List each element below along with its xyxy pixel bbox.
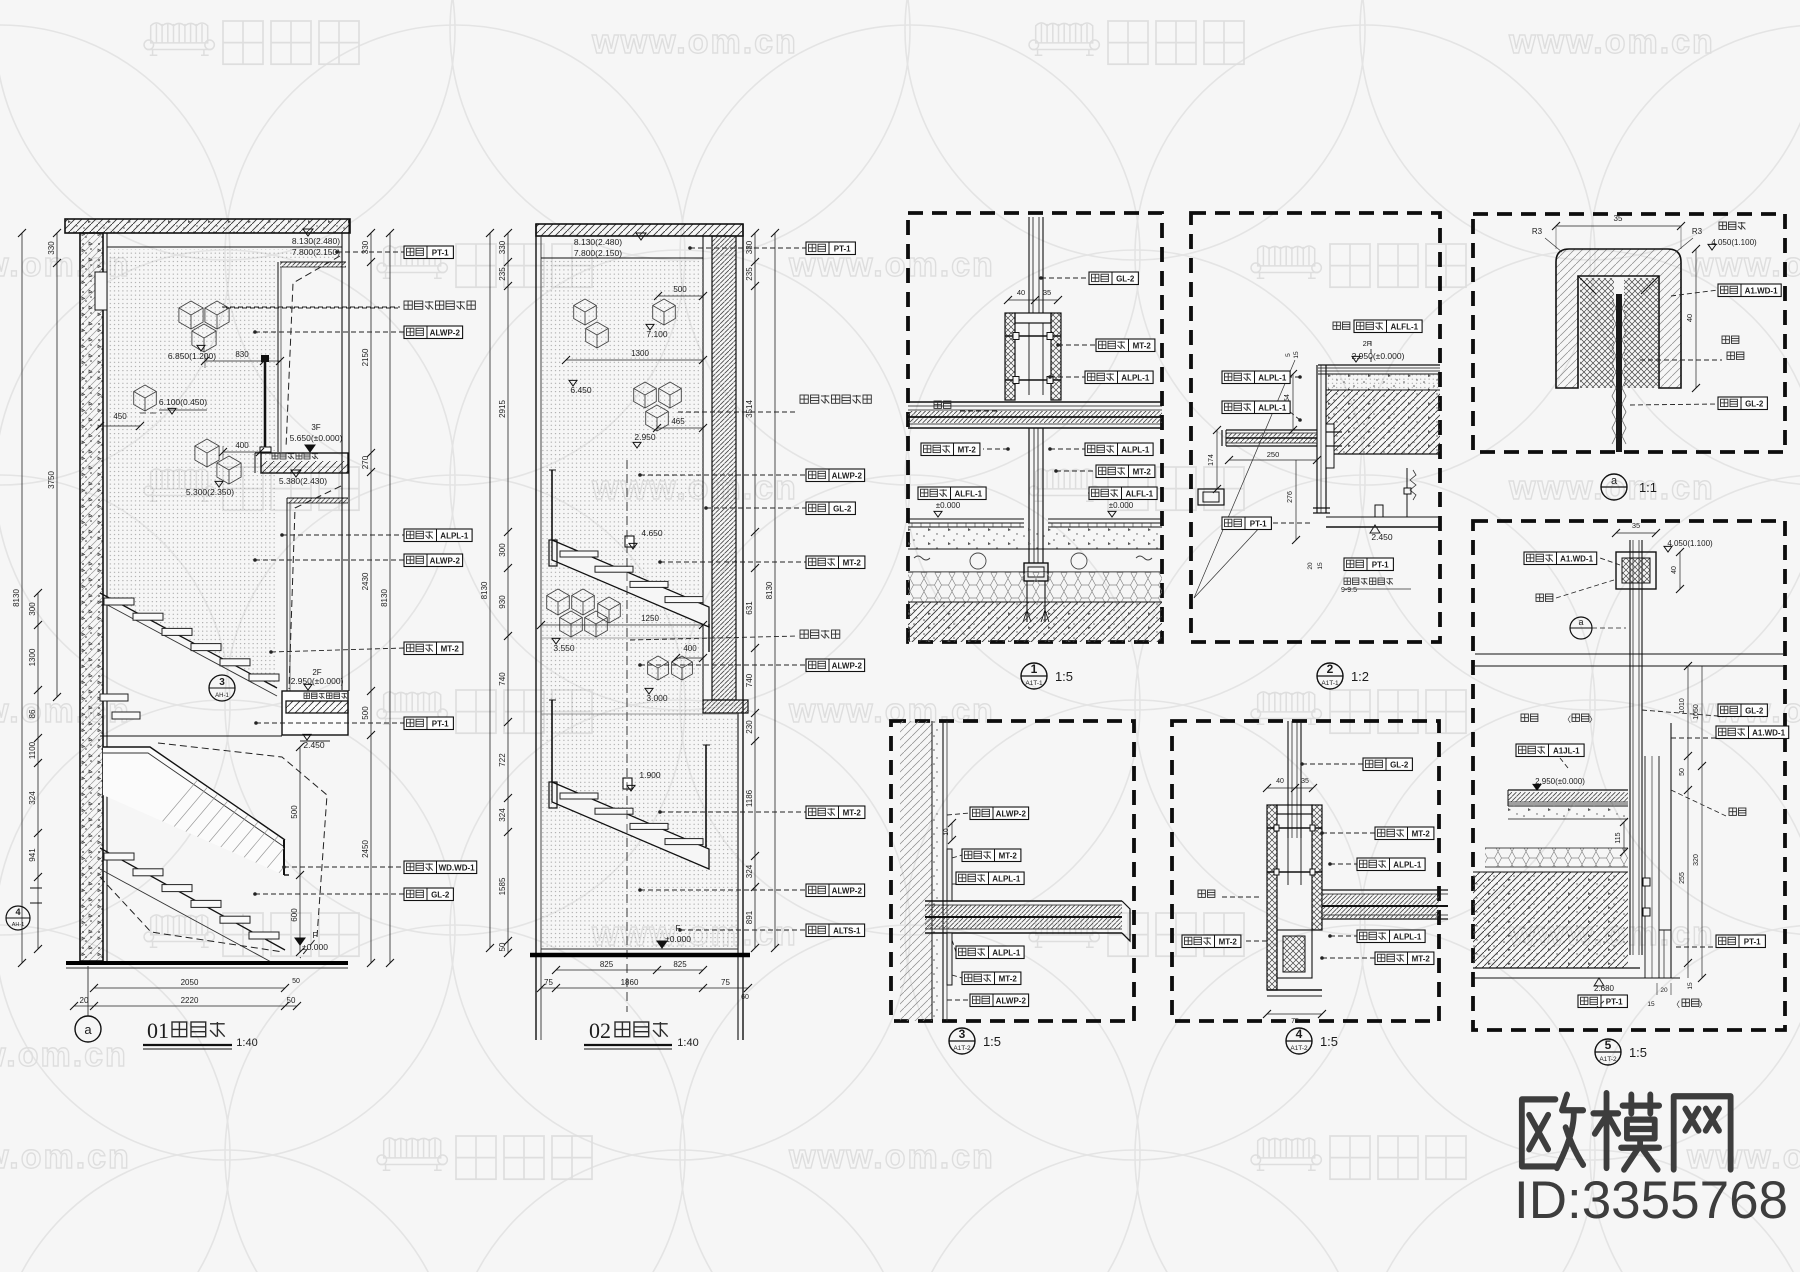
detail 5 border	[1473, 214, 1785, 452]
svg-text:A1JL-1: A1JL-1	[1553, 746, 1580, 755]
detail 6 datum circle a	[1570, 617, 1592, 639]
svg-text:1: 1	[1031, 662, 1038, 676]
svg-text:1250: 1250	[641, 614, 659, 623]
detail 1 labels	[1041, 277, 1089, 279]
svg-text:230: 230	[745, 720, 754, 734]
detail 2 post	[1316, 365, 1318, 513]
svg-text:330: 330	[745, 240, 754, 254]
svg-text:1050: 1050	[1693, 704, 1700, 720]
elevation 02 section cut line over stairs	[626, 460, 628, 1012]
svg-text:631: 631	[745, 601, 754, 615]
svg-text:3750: 3750	[47, 471, 56, 489]
svg-text:1300: 1300	[631, 349, 649, 358]
detail 2 long leader	[1194, 360, 1295, 598]
elevation 01 datum circle 4	[6, 906, 30, 930]
svg-text:276: 276	[1287, 491, 1294, 503]
svg-text:ALFL-1: ALFL-1	[955, 489, 983, 498]
svg-text:2.680: 2.680	[1594, 984, 1615, 993]
detail 6 border	[1473, 521, 1785, 1030]
detail 6 floor finish	[1508, 789, 1628, 791]
svg-text:400: 400	[683, 644, 697, 653]
svg-text:324: 324	[745, 864, 754, 878]
elevation 01 stair callout circle 3	[209, 675, 235, 701]
detail 4 slab right	[1322, 889, 1448, 891]
svg-text:1.900: 1.900	[639, 770, 661, 780]
detail 6 glue note	[1536, 594, 1553, 601]
elevation 02 cubes 6.450	[574, 299, 597, 325]
elevation 01 wall lamp label	[222, 306, 400, 308]
svg-text:1:2: 1:2	[1351, 669, 1369, 684]
elevation 01 cube 6.100	[134, 385, 157, 411]
svg-text:ALFL-1: ALFL-1	[1391, 322, 1419, 331]
elevation 01 wallpaper stipple field	[109, 249, 341, 688]
elevation 01 ground line	[66, 961, 348, 965]
detail 5 wood note	[1719, 222, 1745, 229]
svg-text:PT-1: PT-1	[1250, 519, 1267, 528]
svg-text:50: 50	[287, 996, 296, 1005]
svg-text:6.100(0.450): 6.100(0.450)	[159, 397, 207, 407]
detail 2 border	[1191, 213, 1440, 642]
site logo text	[1522, 1093, 1731, 1169]
svg-text:www.om.cn: www.om.cn	[788, 1138, 995, 1176]
svg-text:8130: 8130	[12, 589, 21, 607]
svg-text:www.om.cn: www.om.cn	[1508, 23, 1715, 61]
elevation 02 dim 1250	[541, 624, 703, 626]
svg-text:2050: 2050	[181, 978, 199, 987]
detail 1 structure slab	[908, 602, 1162, 642]
svg-text:MT-2: MT-2	[1412, 829, 1431, 838]
svg-text:GL-2: GL-2	[1390, 760, 1409, 769]
detail 6 floor label	[1516, 744, 1584, 757]
svg-text:35: 35	[1614, 214, 1623, 223]
svg-text:ID:3355768: ID:3355768	[1514, 1171, 1788, 1230]
elevation 02 bottom dims	[556, 969, 703, 971]
svg-text:86: 86	[28, 709, 37, 718]
svg-text:GL-2: GL-2	[1745, 399, 1764, 408]
svg-text:174: 174	[1208, 454, 1215, 466]
svg-text:3.550: 3.550	[553, 643, 575, 653]
svg-text:A1T-1: A1T-1	[1321, 680, 1339, 687]
svg-text:2220: 2220	[181, 996, 199, 1005]
svg-text:7.100: 7.100	[646, 329, 668, 339]
svg-text:722: 722	[498, 753, 507, 767]
detail 5 glass channel hatch	[1580, 278, 1614, 388]
svg-text:7.800(2.150): 7.800(2.150)	[292, 247, 340, 257]
svg-text:891: 891	[745, 910, 754, 924]
elevation 02 material labels right	[690, 247, 806, 249]
detail 3 shelf	[925, 900, 1122, 902]
svg-text:A1.WD-1: A1.WD-1	[1752, 728, 1785, 737]
detail 4 scale	[1286, 1028, 1312, 1054]
svg-text:75: 75	[721, 978, 730, 987]
svg-text:2: 2	[1327, 662, 1334, 676]
svg-text:MT-2: MT-2	[1412, 954, 1431, 963]
svg-text:MT-2: MT-2	[843, 558, 862, 567]
svg-text:1:5: 1:5	[1629, 1045, 1647, 1060]
elevation 01 soffit band 7.800	[280, 262, 346, 267]
svg-text:A1T-2: A1T-2	[1599, 1056, 1617, 1063]
detail 4 dim 40 35	[1267, 787, 1313, 789]
detail 2 joist block	[1326, 390, 1440, 454]
svg-text:500: 500	[673, 285, 687, 294]
elevation 02 dim 1300	[566, 359, 703, 361]
svg-text:1186: 1186	[745, 789, 754, 807]
svg-text:4.650: 4.650	[641, 528, 663, 538]
svg-text:02: 02	[589, 1018, 611, 1043]
svg-text:F: F	[313, 931, 318, 940]
detail 6 top dims	[1616, 532, 1656, 534]
svg-text:ALPL-1: ALPL-1	[1258, 403, 1287, 412]
svg-text:PT-1: PT-1	[1744, 937, 1761, 946]
svg-text:2.950(±0.000): 2.950(±0.000)	[1535, 777, 1585, 786]
svg-text:1860: 1860	[621, 978, 639, 987]
elevation 02 handrail post upper	[551, 470, 553, 540]
svg-text:8130: 8130	[765, 581, 774, 599]
svg-text:ALPL-1: ALPL-1	[1121, 445, 1150, 454]
svg-text:300: 300	[28, 602, 37, 616]
svg-text:GL-2: GL-2	[1116, 274, 1135, 283]
detail 3 ss plate lower	[947, 933, 952, 985]
detail 1 scale	[1021, 663, 1047, 689]
elevation 02 dim 465	[657, 427, 703, 429]
svg-text:a: a	[1578, 617, 1583, 627]
svg-text:8130: 8130	[480, 581, 489, 599]
svg-text:40: 40	[1017, 288, 1025, 297]
svg-text:ALTS-1: ALTS-1	[833, 926, 861, 935]
svg-text:±0.000: ±0.000	[936, 501, 961, 510]
svg-text:2.950(±0.000): 2.950(±0.000)	[291, 676, 344, 686]
svg-text:324: 324	[498, 808, 507, 822]
svg-text:a: a	[84, 1022, 92, 1037]
svg-text:50: 50	[292, 978, 300, 985]
svg-text:〈: 〈	[1563, 715, 1571, 724]
elevation 01 lower dashed outline	[158, 743, 327, 958]
svg-text:01: 01	[147, 1018, 169, 1043]
svg-text:75: 75	[544, 978, 553, 987]
detail 5 dims	[1556, 225, 1681, 227]
detail 6 balustrade lower	[1644, 756, 1646, 978]
svg-text:1300: 1300	[28, 648, 37, 666]
detail 1 border	[908, 213, 1162, 642]
svg-text:ALPL-1: ALPL-1	[992, 948, 1021, 957]
svg-text:2430: 2430	[361, 572, 370, 590]
svg-text:PT-1: PT-1	[834, 244, 851, 253]
elevation 01 wall lamp cubes upper	[179, 301, 203, 329]
svg-text:AH-1: AH-1	[12, 922, 25, 928]
detail 6 insulation	[1485, 848, 1628, 867]
detail 6 skirting	[1659, 929, 1671, 931]
svg-text:1010: 1010	[1679, 698, 1686, 714]
svg-text:75: 75	[1291, 1018, 1299, 1025]
elevation 01 upper stair flight	[100, 593, 277, 688]
svg-text:5.650(±0.000): 5.650(±0.000)	[290, 433, 343, 443]
detail 6 wall break lines	[1475, 653, 1783, 655]
svg-text:4.050(1.100): 4.050(1.100)	[1711, 238, 1757, 247]
svg-text:1585: 1585	[498, 877, 507, 895]
svg-text:1:5: 1:5	[1055, 669, 1073, 684]
detail 3 lower labels	[952, 940, 956, 952]
detail 6 wood label	[1524, 552, 1597, 565]
svg-text:2915: 2915	[498, 400, 507, 418]
elevation 02 cube 7.100	[653, 299, 676, 325]
elevation 02 mid cubes 3.550	[547, 589, 570, 615]
elevation 02 section cut dashed line	[626, 460, 628, 1012]
svg-text:930: 930	[498, 595, 507, 609]
svg-text:MT-2: MT-2	[1133, 467, 1152, 476]
svg-text:825: 825	[600, 960, 614, 969]
svg-text:35: 35	[1632, 521, 1640, 530]
svg-text:8130: 8130	[380, 589, 389, 607]
detail 1 glass panel	[1028, 217, 1030, 313]
svg-text:www.om.cn: www.om.cn	[591, 23, 798, 61]
svg-text:400: 400	[235, 441, 249, 450]
svg-text:ALPL-1: ALPL-1	[992, 874, 1021, 883]
elevation 02 stipple field	[541, 260, 703, 949]
elevation 01 material labels right	[337, 251, 404, 253]
svg-text:450: 450	[113, 412, 127, 421]
svg-text:a: a	[1611, 475, 1618, 487]
svg-text:R3: R3	[1692, 227, 1703, 236]
elevation 01 2F floor lines	[100, 735, 282, 737]
svg-text:ALWP-2: ALWP-2	[996, 996, 1027, 1005]
svg-text:MT-2: MT-2	[999, 974, 1018, 983]
svg-text:ALPL-1: ALPL-1	[1121, 373, 1150, 382]
svg-text:www.om.cn: www.om.cn	[1686, 246, 1800, 284]
svg-text:5.300(2.350): 5.300(2.350)	[186, 487, 234, 497]
elevation 02 left boundary	[535, 224, 537, 1040]
svg-text:4: 4	[1296, 1027, 1303, 1041]
svg-text:A1T-1: A1T-1	[1025, 680, 1043, 687]
detail 1 post	[1028, 428, 1030, 563]
elevation 01 dashed wardrobe outline upper	[286, 256, 340, 448]
elevation 02 beam note text	[630, 636, 798, 640]
detail 6 structural slab	[1473, 872, 1628, 968]
svg-text:3.000: 3.000	[646, 693, 668, 703]
elevation 02 dim 500	[658, 295, 703, 297]
svg-text:825: 825	[673, 960, 687, 969]
elevation 01 ceiling line	[107, 246, 342, 248]
svg-text:3: 3	[219, 677, 225, 688]
svg-text:15: 15	[1293, 351, 1300, 359]
svg-text:40: 40	[1671, 566, 1678, 574]
svg-text:±0.000: ±0.000	[665, 934, 691, 944]
detail 2 bolt plate	[1326, 424, 1334, 468]
svg-text:ALPL-1: ALPL-1	[1393, 860, 1422, 869]
svg-text:MT-2: MT-2	[958, 445, 977, 454]
svg-text:330: 330	[47, 241, 56, 255]
detail 4 border	[1172, 721, 1439, 1021]
svg-text:5.380(2.430): 5.380(2.430)	[279, 476, 327, 486]
detail 5 scale circle	[1601, 474, 1627, 500]
elevation 01 right dim chains	[370, 233, 372, 963]
svg-text:20: 20	[1660, 987, 1668, 994]
detail 2 left labels	[1284, 376, 1300, 378]
detail 6 heating text	[1521, 714, 1538, 721]
svg-text:40: 40	[1276, 778, 1284, 785]
svg-text:ALWP-2: ALWP-2	[832, 886, 863, 895]
elevation 02 wall lamp cubes	[634, 382, 657, 408]
svg-text:465: 465	[671, 417, 685, 426]
svg-text:3F: 3F	[311, 423, 320, 432]
detail 1 steel plate text	[934, 401, 951, 408]
svg-text:2150: 2150	[361, 348, 370, 366]
svg-text:830: 830	[235, 350, 249, 359]
svg-text:320: 320	[1693, 854, 1700, 866]
svg-text:6.450: 6.450	[570, 385, 592, 395]
svg-text:8.130(2.480): 8.130(2.480)	[292, 236, 340, 246]
svg-text:7.800(2.150): 7.800(2.150)	[574, 248, 622, 258]
svg-text:±0.000: ±0.000	[302, 942, 328, 952]
elevation 02 left dim chains	[489, 233, 491, 948]
elevation 02 cubes 3.000	[648, 656, 669, 680]
svg-text:270: 270	[361, 455, 370, 469]
detail 4 steel text	[1198, 890, 1215, 897]
svg-text:1:5: 1:5	[1320, 1034, 1338, 1049]
svg-text:500: 500	[361, 706, 370, 720]
detail 4 glass	[1287, 721, 1289, 838]
elevation 01 handrail dim 500 600	[299, 747, 301, 875]
svg-text:A1T-2: A1T-2	[953, 1045, 971, 1052]
svg-text:A1.WD-1: A1.WD-1	[1560, 554, 1593, 563]
detail 6 dims right	[1687, 666, 1689, 756]
svg-text:9-9.5: 9-9.5	[1341, 587, 1357, 594]
svg-text:600: 600	[290, 908, 299, 922]
svg-text:20: 20	[80, 996, 89, 1005]
elevation 02 wall lamp label text	[800, 395, 871, 403]
elevation 01 bottom dimensions	[94, 987, 285, 989]
elevation 01 cubes 5.300	[195, 439, 219, 467]
svg-text:2.450: 2.450	[303, 740, 325, 750]
svg-text:740: 740	[498, 672, 507, 686]
elevation 01 mid soffit and dashed outline	[289, 498, 348, 503]
svg-text:15: 15	[1317, 562, 1324, 570]
elevation 02 right dim chains	[754, 233, 756, 948]
svg-text:GL-2: GL-2	[1745, 706, 1764, 715]
svg-text:MT-2: MT-2	[999, 851, 1018, 860]
svg-text:35: 35	[1043, 288, 1051, 297]
svg-text:50: 50	[1679, 768, 1686, 776]
elevation 02 ceiling slab	[536, 224, 743, 236]
detail 1 anchor bolts	[1026, 581, 1028, 622]
svg-text:15: 15	[1647, 1001, 1655, 1008]
detail 2 foam band	[1326, 374, 1440, 390]
elevation 02 beam line	[541, 637, 738, 639]
detail 6 glass top	[1629, 540, 1631, 955]
svg-text:R3: R3	[1532, 227, 1543, 236]
svg-text:2450: 2450	[361, 840, 370, 858]
svg-text:ALWP-2: ALWP-2	[430, 556, 461, 565]
detail 1 rail slab	[908, 401, 1162, 403]
svg-text:www.om.cn: www.om.cn	[0, 1138, 131, 1176]
svg-text:MT-2: MT-2	[843, 808, 862, 817]
svg-text:A1.WD-1: A1.WD-1	[1745, 286, 1778, 295]
svg-text:±0.000: ±0.000	[1109, 501, 1134, 510]
elevation 01 wall notch	[95, 272, 107, 310]
svg-text:1:40: 1:40	[236, 1037, 257, 1049]
svg-text:GL-2: GL-2	[431, 890, 450, 899]
svg-text:35: 35	[1301, 778, 1309, 785]
detail 1 insulation hex band	[908, 572, 1162, 602]
detail 6 scale	[1595, 1039, 1621, 1065]
elevation 01 glass balustrade	[103, 747, 284, 875]
detail 5 labels	[1671, 290, 1718, 296]
svg-text:3: 3	[959, 1027, 966, 1041]
svg-text:WD.WD-1: WD.WD-1	[439, 863, 476, 872]
detail 3 alpl label upper	[952, 883, 956, 885]
svg-text:250: 250	[1267, 450, 1280, 459]
svg-text:300: 300	[498, 543, 507, 557]
svg-text:500: 500	[290, 805, 299, 819]
svg-text:1:1: 1:1	[1639, 480, 1657, 495]
detail 3 dim 10	[951, 823, 953, 840]
svg-text:1:5: 1:5	[983, 1034, 1001, 1049]
svg-text:ALPL-1: ALPL-1	[1393, 932, 1422, 941]
elevation 02 ground line	[541, 948, 738, 950]
detail 1 screed band	[908, 527, 1162, 549]
svg-text:4.050(1.100): 4.050(1.100)	[1667, 539, 1713, 548]
elevation 02 upper stair band	[552, 540, 709, 627]
svg-text:6.850(1.200): 6.850(1.200)	[168, 351, 216, 361]
svg-text:〉: 〉	[1589, 715, 1597, 724]
detail 5 handrail cap	[1556, 249, 1681, 388]
svg-text:2F: 2F	[1363, 339, 1372, 348]
detail 1 glass clamp	[1005, 313, 1015, 400]
svg-text:50: 50	[498, 942, 507, 951]
svg-text:1:40: 1:40	[677, 1037, 698, 1049]
svg-text:MT-2: MT-2	[1133, 341, 1152, 350]
detail 4 labels right	[1302, 763, 1363, 765]
detail 4 dim 75	[1267, 1013, 1322, 1015]
elevation 01 title	[75, 1016, 101, 1042]
svg-text:PT-1: PT-1	[432, 719, 449, 728]
detail 3 wall section	[900, 721, 932, 1021]
svg-text:MT-2: MT-2	[441, 644, 460, 653]
detail 3 ss plate upper	[947, 849, 952, 901]
svg-text:740: 740	[745, 673, 754, 687]
svg-text:5: 5	[1605, 1038, 1612, 1052]
svg-text:20: 20	[1307, 562, 1314, 570]
svg-text:1100: 1100	[28, 741, 37, 759]
detail 2 ceiling	[1326, 516, 1440, 518]
svg-text:4: 4	[15, 907, 20, 917]
detail 2 scale	[1317, 663, 1343, 689]
svg-text:ALWP-2: ALWP-2	[832, 661, 863, 670]
detail 1 dim 40 35	[1008, 299, 1058, 301]
elevation 01 ceiling slab	[65, 219, 350, 233]
svg-text:115: 115	[1615, 832, 1622, 843]
svg-text:3514: 3514	[745, 400, 754, 418]
svg-text:235: 235	[745, 267, 754, 281]
elevation 02 handrail post lower	[551, 700, 553, 782]
svg-text:5: 5	[1285, 353, 1292, 357]
detail 2 heating label	[1333, 322, 1350, 329]
svg-text:15: 15	[1687, 982, 1694, 990]
watermark logos and urls	[144, 23, 214, 55]
svg-text:PT-1: PT-1	[1606, 997, 1623, 1006]
svg-text:ALPL-1: ALPL-1	[440, 531, 469, 540]
svg-text:40: 40	[1685, 314, 1694, 322]
svg-text:ALFL-1: ALFL-1	[1126, 489, 1154, 498]
elevation 02 lower stair band	[552, 782, 709, 869]
svg-text:〉: 〉	[1699, 1000, 1707, 1009]
svg-text:A1T-2: A1T-2	[1290, 1045, 1308, 1052]
detail 5 glass	[1616, 294, 1622, 452]
svg-text:324: 324	[28, 791, 37, 805]
elevation 01 left wall	[80, 233, 103, 961]
svg-text:ALWP-2: ALWP-2	[996, 809, 1027, 818]
detail 3 border	[891, 721, 1134, 1021]
detail 3 wallpaper label	[947, 813, 970, 815]
